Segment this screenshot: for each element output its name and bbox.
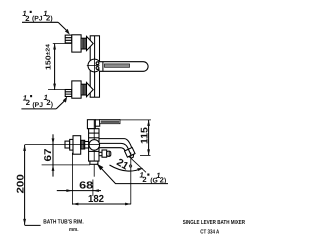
- dim 150 top arrow: [53, 44, 56, 50]
- front inlet neck: [85, 142, 89, 149]
- upper inlet cone: [87, 36, 94, 50]
- lever grip bar (front): [100, 120, 120, 124]
- lower inlet tail: [65, 90, 72, 97]
- svg-text:200: 200: [16, 174, 27, 194]
- lever step: [95, 120, 99, 126]
- center extension line (right of 68): [92, 180, 94, 197]
- dim 200 line: [24, 145, 26, 225]
- spout mid line: [99, 143, 129, 149]
- dim 200 top arrow: [23, 145, 26, 151]
- label L1 leader: [58, 22, 67, 30]
- svg-text:115: 115: [140, 127, 151, 144]
- label L1 arrowhead: [65, 29, 70, 35]
- diverter knob cap: [107, 151, 111, 156]
- handle outline (top view): [100, 62, 149, 72]
- body line a: [89, 132, 99, 134]
- front inlet step: [70, 139, 73, 150]
- svg-text:SINGLE LEVER BATH MIXER: SINGLE LEVER BATH MIXER: [183, 219, 246, 226]
- angle arc arrowhead: [137, 168, 143, 171]
- front inlet ribs: [81, 140, 85, 149]
- svg-text:CT 334 A: CT 334 A: [200, 229, 220, 236]
- body column: [89, 129, 99, 161]
- lower inlet centerline: [48, 89, 92, 91]
- dim 67 top arrow (outside, pointing down): [52, 138, 55, 144]
- upper inlet nut: [72, 35, 81, 52]
- spout tip: [129, 154, 135, 159]
- dim 115 line: [148, 120, 150, 155]
- upper inlet centerline: [53, 43, 92, 45]
- dim 200 bottom arrow: [23, 219, 26, 225]
- tub rim text: [43, 219, 84, 233]
- body plate: [90, 36, 99, 97]
- label L2 arrowhead: [63, 96, 68, 102]
- dim 115 bottom extension: [140, 154, 151, 156]
- label 21 deg: [114, 156, 134, 174]
- main horizontal centerline to dims: [25, 144, 89, 146]
- dim 115 top extension: [120, 119, 151, 121]
- circle crosshair: [87, 58, 103, 74]
- lower inlet nut: [72, 81, 81, 98]
- dim 68 left arrow (pointing right): [66, 189, 72, 192]
- dim 68 line: [72, 190, 93, 192]
- dim 150 line: [54, 44, 56, 90]
- lower inlet cone: [87, 83, 94, 97]
- body line b: [89, 137, 99, 139]
- dim 150 text: [44, 43, 53, 70]
- label L1 half-inch PJ top: [22, 9, 52, 23]
- title line 2: [200, 229, 220, 236]
- svg-text:2: 2: [25, 14, 29, 23]
- svg-text:67: 67: [43, 148, 54, 162]
- label L2 leader: [56, 100, 65, 109]
- dim 150 bottom arrow: [53, 84, 56, 90]
- body centerline: [93, 120, 95, 177]
- svg-text:BATH TUB'S RIM.: BATH TUB'S RIM.: [43, 219, 84, 226]
- svg-text:182: 182: [88, 194, 104, 205]
- dim 67 bottom arrow (outside, pointing up): [52, 165, 55, 171]
- tub rim line: [25, 224, 41, 226]
- lever hub: [87, 120, 95, 129]
- vertical reference line at outlet: [130, 153, 132, 205]
- spout collar: [125, 147, 137, 159]
- svg-text:2: 2: [26, 98, 30, 107]
- angle arc: [110, 165, 143, 171]
- handle joint line: [102, 62, 104, 72]
- dim 200 text: [16, 174, 27, 194]
- svg-text:): ): [51, 102, 53, 109]
- label L2 underline: [21, 108, 56, 110]
- dim 182 text: [88, 194, 104, 205]
- screw hole top: [96, 62, 99, 65]
- upper inlet tail: [65, 35, 72, 43]
- diverter knob neck: [99, 152, 102, 155]
- hose fitting under body: [90, 161, 98, 164]
- dim 182 line: [72, 203, 131, 205]
- dim 68 left approach: [57, 190, 73, 192]
- handle grip bar (top view): [104, 64, 129, 67]
- lower inlet neck: [81, 84, 86, 95]
- dim 67 text: [43, 148, 54, 162]
- hose fitting leader: [97, 164, 168, 184]
- outlet axis line: [131, 159, 146, 173]
- dim 115 top arrow: [147, 120, 150, 126]
- svg-text:150±24: 150±24: [44, 43, 53, 70]
- valve crosshair front: [89, 144, 100, 146]
- cartridge circle: [88, 59, 101, 72]
- svg-text:(PJ: (PJ: [32, 102, 43, 109]
- title line 1: [183, 219, 246, 226]
- dim 115 bottom arrow: [147, 149, 150, 155]
- dim 115 text: [140, 127, 151, 144]
- hose fitting leader arrowhead: [97, 164, 104, 171]
- svg-text:2: 2: [142, 175, 146, 184]
- front inlet nut: [73, 136, 81, 155]
- svg-text:): ): [50, 15, 52, 22]
- spout outer top: [99, 139, 132, 148]
- dim 67 line: [52, 134, 54, 176]
- spout bottom: [99, 148, 125, 151]
- diverter knob body: [102, 150, 107, 157]
- body line c: [89, 150, 99, 152]
- svg-text:68: 68: [79, 181, 93, 192]
- dim 68 right approach: [93, 190, 101, 192]
- screw hole bottom: [96, 67, 99, 70]
- label G half text: [140, 170, 167, 184]
- label L1 underline: [22, 21, 58, 23]
- front inlet thread: [65, 141, 70, 148]
- dim 68 right arrow (pointing left): [93, 189, 99, 192]
- svg-text:(PJ: (PJ: [32, 15, 43, 22]
- dim 67 bottom extension: [42, 164, 90, 166]
- dim 68 text: [79, 181, 93, 192]
- valve circle front: [89, 140, 100, 151]
- svg-text:mm.: mm.: [69, 227, 79, 233]
- plate inner line: [94, 36, 96, 97]
- wall extension line (left of 68/182): [71, 153, 73, 205]
- svg-text:): ): [164, 178, 166, 185]
- upper inlet neck: [81, 38, 86, 49]
- dim 182 left arrow: [72, 203, 78, 206]
- dim 182 right arrow: [125, 203, 131, 206]
- label L2 half-inch PJ left: [23, 93, 53, 109]
